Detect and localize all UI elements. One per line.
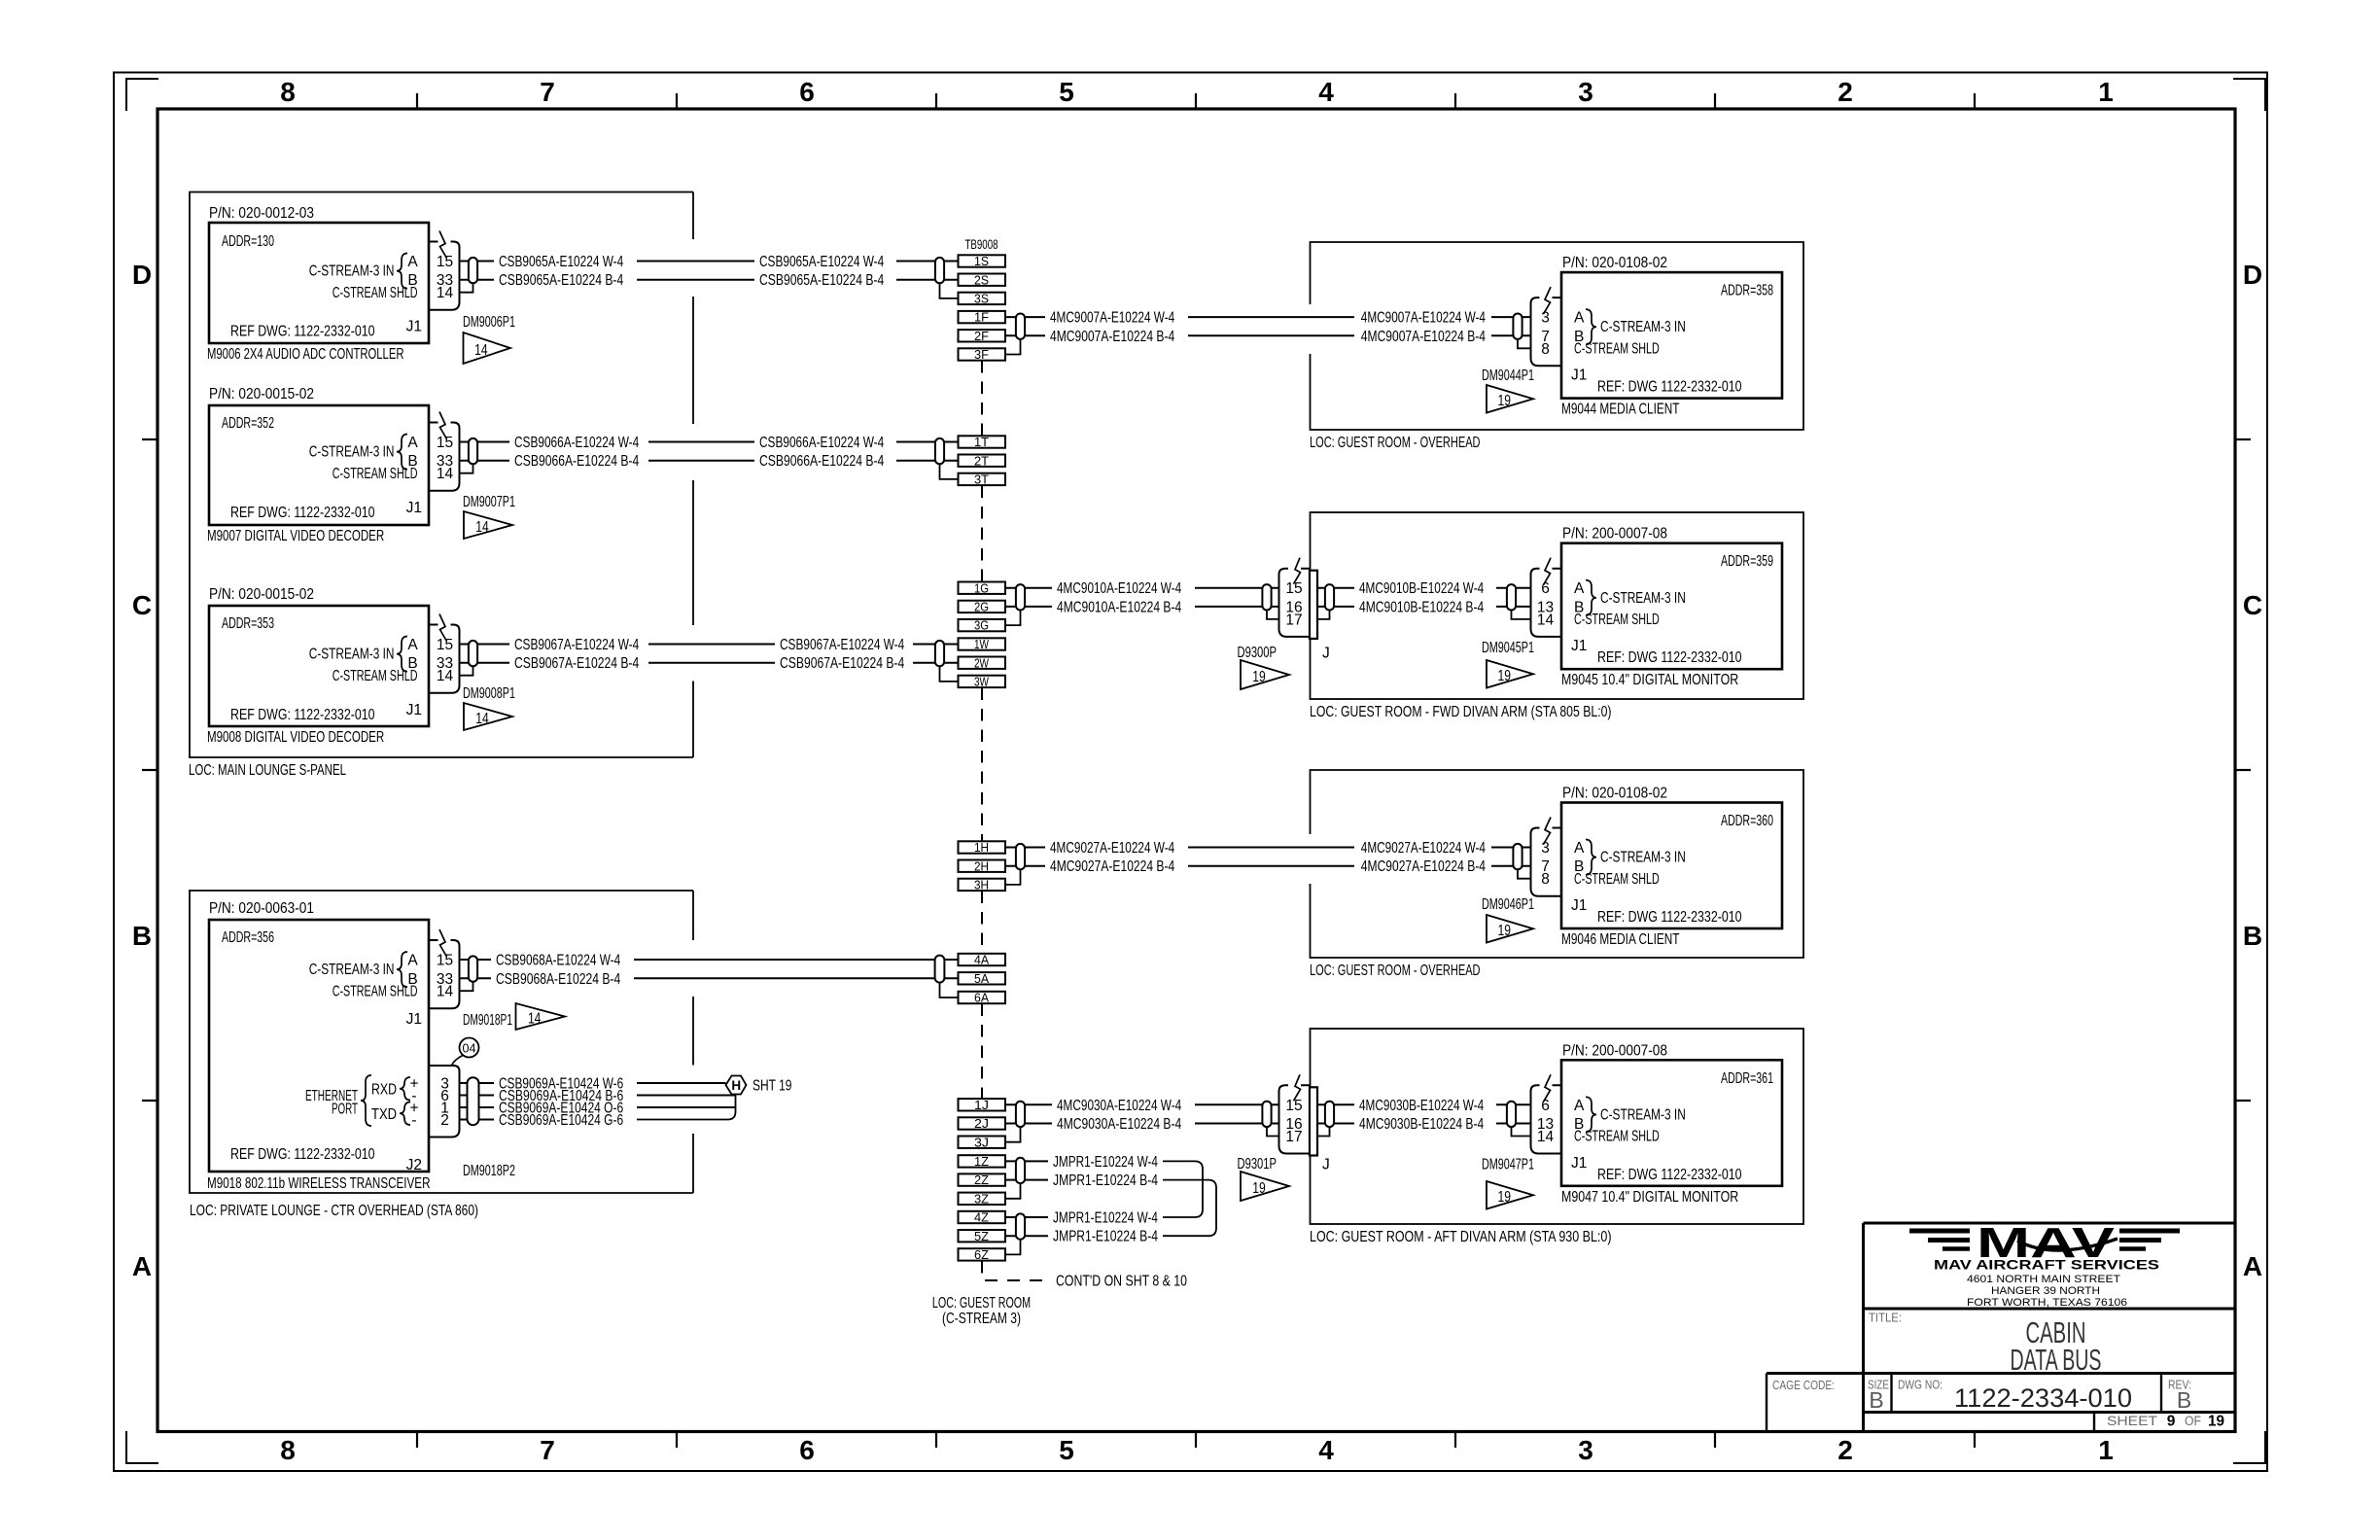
wire 4MC9030A-E10224 W-4 (1005, 1098, 1279, 1114)
terminal 3G (959, 618, 1006, 633)
svg-text:C-STREAM-3 IN: C-STREAM-3 IN (1600, 850, 1686, 866)
svg-text:REF: DWG 1122-2332-010: REF: DWG 1122-2332-010 (1597, 909, 1742, 926)
svg-text:3G: 3G (974, 618, 989, 633)
svg-text:SHEET: SHEET (2107, 1414, 2157, 1428)
svg-text:TITLE:: TITLE: (1869, 1311, 1902, 1325)
wire CSB9066A-E10224 W-4 (460, 435, 959, 451)
device M9008 DIGITAL VIDEO DECODER (207, 586, 429, 746)
svg-text:JMPR1-E10224 W-4: JMPR1-E10224 W-4 (1053, 1210, 1158, 1227)
svg-text:14: 14 (1537, 612, 1555, 628)
svg-text:17: 17 (1285, 1129, 1302, 1145)
title block outline (1767, 1223, 2235, 1432)
svg-text:2: 2 (440, 1112, 449, 1129)
device M9018 802.11b WIRELESS TRANSCEIVER (207, 900, 431, 1192)
svg-text:ADDR=353: ADDR=353 (222, 615, 274, 632)
flag triangle 19 (DM9047P1) (1487, 1181, 1533, 1209)
svg-text:B: B (2243, 921, 2262, 951)
svg-text:2: 2 (1837, 1435, 1853, 1465)
wire 4MC9010A-E10224 W-4 (1005, 580, 1279, 597)
group box LOC MAIN LOUNGE S-PANEL (190, 192, 693, 758)
svg-text:3: 3 (1578, 77, 1593, 107)
terminal 3S (959, 292, 1006, 306)
svg-text:4MC9010B-E10224 W-4: 4MC9010B-E10224 W-4 (1359, 580, 1484, 597)
shield drain TB 3S side (940, 283, 959, 298)
svg-text:CSB9066A-E10224 W-4: CSB9066A-E10224 W-4 (759, 435, 884, 451)
connector J1 of M9046 (1531, 818, 1562, 896)
svg-text:TXD: TXD (371, 1106, 397, 1123)
svg-text:JMPR1-E10224 B-4: JMPR1-E10224 B-4 (1053, 1172, 1158, 1189)
jumper wire JMPR1-E10224 W-4 (1Z to 4Z) (1005, 1154, 1203, 1227)
device M9046 M9046 MEDIA CLIENT (1561, 786, 1782, 949)
svg-text:CSB9067A-E10224 W-4: CSB9067A-E10224 W-4 (780, 637, 904, 653)
svg-text:A: A (407, 435, 418, 451)
shield oval TB S group (935, 258, 944, 283)
device M9006 2X4 AUDIO ADC CONTROLLER (207, 205, 429, 363)
terminal 1S (959, 254, 1006, 268)
svg-text:C-STREAM SHLD: C-STREAM SHLD (332, 984, 418, 1000)
svg-text:H: H (731, 1078, 741, 1093)
svg-text:REF DWG: 1122-2332-010: REF DWG: 1122-2332-010 (230, 505, 375, 521)
dashed bus line of terminal strip (982, 361, 1050, 1280)
wire CSB9069A-E10424 O-6 (460, 1101, 736, 1117)
svg-text:LOC: GUEST ROOM - OVERHEAD: LOC: GUEST ROOM - OVERHEAD (1310, 435, 1481, 451)
terminal 6A (959, 991, 1006, 1005)
shield drain TB 6A side (940, 982, 959, 997)
flag triangle 19 (DM9046P1) (1487, 915, 1533, 943)
svg-text:M9045 10.4" DIGITAL MONITOR: M9045 10.4" DIGITAL MONITOR (1561, 672, 1738, 688)
connector J1 of M9018 (429, 929, 460, 1008)
zone tick marks bottom (417, 1432, 1975, 1449)
svg-text:J1: J1 (406, 702, 422, 718)
svg-text:P/N: 020-0012-03: P/N: 020-0012-03 (209, 205, 314, 222)
svg-text:A: A (2243, 1251, 2262, 1281)
svg-text:1W: 1W (974, 637, 990, 651)
svg-text:M9008 DIGITAL VIDEO DECODER: M9008 DIGITAL VIDEO DECODER (207, 729, 384, 746)
terminal 1J (959, 1098, 1006, 1112)
zone letters right (2243, 260, 2262, 1281)
svg-text:P/N: 020-0015-02: P/N: 020-0015-02 (209, 586, 314, 603)
svg-text:C-STREAM-3 IN: C-STREAM-3 IN (309, 263, 395, 280)
svg-text:A: A (407, 637, 418, 653)
svg-text:1: 1 (2098, 1435, 2114, 1465)
shield oval M9045 (1507, 584, 1516, 610)
shield oval M9018 J2 ethernet (468, 1077, 479, 1125)
svg-text:C: C (2243, 590, 2262, 620)
svg-text:CONT'D ON SHT 8 & 10: CONT'D ON SHT 8 & 10 (1056, 1274, 1187, 1290)
shield oval TB 1Z/2Z (1016, 1158, 1025, 1183)
svg-text:4MC9007A-E10224 B-4: 4MC9007A-E10224 B-4 (1050, 329, 1174, 345)
svg-text:4MC9030A-E10224 B-4: 4MC9030A-E10224 B-4 (1057, 1116, 1181, 1133)
svg-text:4MC9010B-E10224 B-4: 4MC9010B-E10224 B-4 (1359, 599, 1484, 615)
svg-text:OF: OF (2185, 1414, 2201, 1428)
svg-text:LOC: MAIN LOUNGE S-PANEL: LOC: MAIN LOUNGE S-PANEL (189, 762, 346, 779)
group box LOC PRIVATE LOUNGE - CTR OVERHEAD (190, 891, 693, 1193)
svg-text:D: D (132, 260, 152, 290)
svg-text:3: 3 (1541, 840, 1550, 857)
svg-text:14: 14 (475, 711, 489, 727)
connector receptacle J of D9301P (1310, 1087, 1330, 1172)
svg-text:-: - (411, 1112, 416, 1129)
dwg no field (1898, 1378, 2132, 1414)
svg-text:4MC9007A-E10224 W-4: 4MC9007A-E10224 W-4 (1050, 310, 1174, 327)
svg-text:M9044 MEDIA CLIENT: M9044 MEDIA CLIENT (1561, 402, 1680, 418)
shield drain TB 3Z side (1005, 1183, 1021, 1199)
shield drain M9008 side (460, 666, 473, 675)
svg-text:M9007 DIGITAL VIDEO DECODER: M9007 DIGITAL VIDEO DECODER (207, 528, 384, 544)
sheet field SHEET 9 OF 19 (2107, 1414, 2224, 1430)
svg-text:4MC9007A-E10224 W-4: 4MC9007A-E10224 W-4 (1361, 310, 1486, 327)
svg-text:J1: J1 (1571, 897, 1587, 914)
svg-text:J1: J1 (406, 319, 422, 335)
svg-text:1F: 1F (974, 310, 989, 325)
svg-text:D9300P: D9300P (1238, 645, 1277, 661)
svg-text:5A: 5A (974, 971, 989, 986)
connector J1 of M9007 (429, 412, 460, 491)
svg-text:ADDR=360: ADDR=360 (1721, 813, 1773, 829)
shield drain M9007 side (460, 464, 473, 472)
svg-text:B: B (2177, 1387, 2191, 1413)
svg-text:CSB9069A-E10424 G-6: CSB9069A-E10424 G-6 (499, 1112, 623, 1129)
svg-text:4MC9030B-E10224 W-4: 4MC9030B-E10224 W-4 (1359, 1098, 1484, 1114)
flag triangle 19 (D9301P) (1241, 1172, 1289, 1201)
wire CSB9069A-E10424 B-6 (460, 1088, 736, 1104)
svg-text:MAV AIRCRAFT SERVICES: MAV AIRCRAFT SERVICES (1934, 1257, 2159, 1273)
svg-text:15: 15 (1285, 580, 1302, 597)
svg-text:DM9018P1: DM9018P1 (463, 1012, 512, 1029)
size field (1868, 1378, 1889, 1414)
svg-text:C-STREAM-3 IN: C-STREAM-3 IN (309, 444, 395, 461)
svg-text:2W: 2W (974, 655, 990, 670)
svg-text:M9018 802.11b WIRELESS TRANSCE: M9018 802.11b WIRELESS TRANSCEIVER (207, 1175, 431, 1192)
shield oval TB 4Z/5Z (1016, 1213, 1025, 1239)
svg-text:19: 19 (1252, 1180, 1266, 1197)
svg-text:LOC: GUEST ROOM: LOC: GUEST ROOM (932, 1295, 1031, 1312)
terminal 1F (959, 310, 1006, 325)
svg-text:LOC: GUEST ROOM - FWD DIVAN AR: LOC: GUEST ROOM - FWD DIVAN ARM (STA 805… (1310, 704, 1612, 720)
svg-text:PORT: PORT (332, 1102, 358, 1118)
shield oval M9044 (1513, 314, 1522, 339)
zone tick marks right (2235, 439, 2251, 1101)
terminal 3F (959, 347, 1006, 362)
shield oval M9046 (1513, 844, 1522, 869)
svg-text:04: 04 (463, 1041, 476, 1056)
MAV logo (1977, 1219, 2117, 1267)
terminal 2Z (959, 1172, 1006, 1187)
terminal 2S (959, 272, 1006, 287)
svg-text:C-STREAM-3 IN: C-STREAM-3 IN (1600, 319, 1686, 335)
terminal 2F (959, 329, 1006, 343)
svg-text:C-STREAM SHLD: C-STREAM SHLD (1574, 1129, 1660, 1145)
svg-text:DM9044P1: DM9044P1 (1482, 367, 1534, 384)
svg-text:M9006 2X4 AUDIO ADC CONTROLLER: M9006 2X4 AUDIO ADC CONTROLLER (207, 346, 404, 363)
svg-text:J1: J1 (1571, 638, 1587, 654)
callout circle 04 (452, 1038, 479, 1067)
svg-text:C-STREAM-3 IN: C-STREAM-3 IN (1600, 1106, 1686, 1123)
svg-text:6A: 6A (974, 991, 989, 1005)
wire CSB9066A-E10224 B-4 (460, 453, 959, 470)
flag triangle 14 (DM9006P1) (464, 332, 511, 364)
svg-text:19: 19 (1497, 393, 1511, 409)
svg-text:3S: 3S (974, 292, 989, 306)
svg-text:LOC: GUEST ROOM - AFT DIVAN AR: LOC: GUEST ROOM - AFT DIVAN ARM (STA 930… (1310, 1229, 1612, 1245)
shield drain D9300P receptacle side (1317, 611, 1330, 619)
terminal 4Z (959, 1210, 1006, 1225)
svg-text:CSB9067A-E10224 W-4: CSB9067A-E10224 W-4 (514, 637, 639, 653)
svg-text:DM9047P1: DM9047P1 (1482, 1157, 1534, 1173)
wire 4MC9030B-E10224 B-4 (1317, 1116, 1530, 1133)
svg-text:17: 17 (1285, 612, 1302, 628)
svg-text:DM9008P1: DM9008P1 (463, 685, 515, 702)
svg-text:4A: 4A (974, 953, 989, 967)
svg-text:A: A (132, 1251, 152, 1281)
svg-text:REF: DWG 1122-2332-010: REF: DWG 1122-2332-010 (1597, 1167, 1742, 1183)
svg-text:P/N: 020-0108-02: P/N: 020-0108-02 (1562, 786, 1667, 802)
svg-text:DWG NO:: DWG NO: (1898, 1378, 1942, 1392)
svg-text:C-STREAM SHLD: C-STREAM SHLD (332, 285, 418, 301)
svg-text:3F: 3F (974, 347, 989, 362)
svg-text:(C-STREAM 3): (C-STREAM 3) (942, 1311, 1021, 1327)
svg-text:ADDR=358: ADDR=358 (1721, 283, 1773, 299)
group box LOC GUEST ROOM FWD DIVAN (M9045) (1311, 512, 1804, 699)
svg-text:CSB9065A-E10224 B-4: CSB9065A-E10224 B-4 (759, 272, 884, 289)
shield drain TB 3G side (1005, 611, 1021, 626)
svg-text:ADDR=356: ADDR=356 (222, 929, 274, 946)
wire CSB9068A-E10224 W-4 (460, 953, 959, 969)
svg-text:REF DWG: 1122-2332-010: REF DWG: 1122-2332-010 (230, 324, 375, 340)
wire CSB9067A-E10224 W-4 (460, 637, 959, 653)
svg-text:1122-2334-010: 1122-2334-010 (1954, 1383, 2132, 1413)
shield drain D9301P receptacle side (1317, 1127, 1330, 1136)
shield oval TB H group (1016, 844, 1025, 869)
svg-text:C-STREAM SHLD: C-STREAM SHLD (332, 466, 418, 482)
svg-text:4MC9030A-E10224 W-4: 4MC9030A-E10224 W-4 (1057, 1098, 1181, 1114)
svg-text:7: 7 (540, 1435, 555, 1465)
svg-text:19: 19 (1252, 669, 1266, 685)
svg-text:15: 15 (437, 254, 453, 270)
svg-text:2: 2 (1837, 77, 1853, 107)
flag triangle 19 (DM9044P1) (1487, 385, 1533, 413)
zone letters left (132, 260, 152, 1281)
svg-text:DM9006P1: DM9006P1 (463, 314, 515, 331)
device M9007 DIGITAL VIDEO DECODER (207, 386, 429, 544)
svg-text:1G: 1G (974, 580, 989, 595)
svg-text:14: 14 (437, 466, 454, 482)
shield drain TB 3F side (1005, 339, 1021, 355)
svg-text:CSB9066A-E10224 W-4: CSB9066A-E10224 W-4 (514, 435, 639, 451)
svg-text:8: 8 (1541, 871, 1550, 888)
shield oval M9008 (469, 641, 477, 666)
svg-text:J2: J2 (406, 1157, 422, 1173)
terminal 3T (959, 472, 1006, 487)
connector plug D9301P (1279, 1074, 1311, 1153)
terminal 3Z (959, 1191, 1006, 1206)
svg-text:15: 15 (437, 637, 453, 653)
wire CSB9065A-E10224 B-4 (460, 272, 959, 289)
svg-text:3H: 3H (974, 878, 989, 892)
rev field (2168, 1378, 2191, 1414)
terminal 5A (959, 971, 1006, 986)
terminal 5Z (959, 1229, 1006, 1243)
svg-text:14: 14 (437, 984, 454, 1000)
svg-text:14: 14 (437, 285, 454, 301)
shield drain TB 3W side (940, 666, 959, 682)
svg-text:CSB9066A-E10224 B-4: CSB9066A-E10224 B-4 (514, 453, 639, 470)
svg-text:14: 14 (475, 519, 489, 536)
device M9044 M9044 MEDIA CLIENT (1561, 255, 1782, 418)
svg-text:JMPR1-E10224 W-4: JMPR1-E10224 W-4 (1053, 1154, 1158, 1171)
svg-text:P/N: 020-0108-02: P/N: 020-0108-02 (1562, 255, 1667, 271)
terminal 2H (959, 858, 1006, 873)
shield oval TB A group (935, 956, 945, 983)
svg-text:9: 9 (2167, 1414, 2176, 1430)
svg-text:B: B (132, 921, 152, 951)
svg-text:CSB9067A-E10224 B-4: CSB9067A-E10224 B-4 (780, 655, 904, 672)
svg-text:A: A (1574, 840, 1585, 857)
terminal 6Z (959, 1247, 1006, 1262)
connector plug D9300P (1279, 558, 1311, 637)
svg-text:4MC9027A-E10224 B-4: 4MC9027A-E10224 B-4 (1361, 858, 1486, 875)
svg-text:DATA BUS: DATA BUS (2011, 1343, 2102, 1377)
svg-text:CSB9067A-E10224 B-4: CSB9067A-E10224 B-4 (514, 655, 639, 672)
svg-text:LOC: PRIVATE LOUNGE - CTR OVER: LOC: PRIVATE LOUNGE - CTR OVERHEAD (STA … (190, 1203, 478, 1219)
svg-text:J: J (1322, 1157, 1330, 1173)
shield drain M9045 side (1512, 611, 1530, 619)
off-sheet hexagon flag H (726, 1076, 747, 1095)
svg-text:5: 5 (1059, 1435, 1074, 1465)
terminal 1H (959, 840, 1006, 855)
shield drain M9018 J1 side (460, 982, 473, 991)
svg-text:CSB9065A-E10224 W-4: CSB9065A-E10224 W-4 (759, 254, 884, 270)
group box LOC GUEST ROOM - OVERHEAD (M9046) (1311, 770, 1804, 958)
svg-text:P/N: 020-0015-02: P/N: 020-0015-02 (209, 386, 314, 402)
terminal 2T (959, 453, 1006, 468)
zone numbers bottom (280, 1435, 2114, 1465)
svg-text:LOC: GUEST ROOM - OVERHEAD: LOC: GUEST ROOM - OVERHEAD (1310, 962, 1481, 979)
terminal 1G (959, 580, 1006, 595)
shield drain TB 3J side (1005, 1127, 1021, 1142)
svg-text:P/N: 200-0007-08: P/N: 200-0007-08 (1562, 1042, 1667, 1059)
flag triangle 14 (DM9008P1) (464, 703, 512, 730)
svg-text:A: A (407, 254, 418, 270)
flag triangle 14 (DM9018P1) (516, 1003, 566, 1030)
connector J1 of M9008 (429, 614, 460, 693)
wire 4MC9030B-E10224 W-4 (1317, 1098, 1530, 1114)
svg-text:19: 19 (1497, 1189, 1511, 1206)
svg-text:ADDR=361: ADDR=361 (1721, 1070, 1773, 1087)
logo wing lines left (1909, 1231, 1970, 1249)
svg-text:REF DWG: 1122-2332-010: REF DWG: 1122-2332-010 (230, 1146, 375, 1163)
shield drain M9006 side (460, 283, 473, 292)
terminal 2G (959, 600, 1006, 614)
connector J1 of M9045 (1531, 558, 1562, 637)
svg-text:2H: 2H (974, 858, 989, 873)
svg-text:2G: 2G (974, 600, 989, 614)
svg-text:14: 14 (528, 1011, 542, 1028)
shield oval D9301P right (1325, 1102, 1334, 1127)
shield drain TB 3H side (1005, 869, 1021, 885)
terminal 2J (959, 1116, 1006, 1131)
inner drawing frame (157, 109, 2235, 1432)
shield drain D9301P plug side (1267, 1127, 1279, 1136)
svg-text:FORT WORTH, TEXAS 76106: FORT WORTH, TEXAS 76106 (1967, 1297, 2127, 1309)
svg-text:TB9008: TB9008 (965, 237, 998, 252)
svg-text:DM9018P2: DM9018P2 (463, 1163, 515, 1179)
svg-text:19: 19 (1497, 923, 1511, 939)
svg-text:CAGE CODE:: CAGE CODE: (1772, 1378, 1835, 1392)
shield oval TB G group (1016, 584, 1025, 610)
svg-text:14: 14 (437, 668, 454, 684)
shield oval M9007 (469, 438, 477, 464)
svg-text:6: 6 (1541, 1098, 1550, 1114)
svg-text:1S: 1S (974, 254, 989, 268)
svg-text:C: C (132, 590, 152, 620)
flag triangle 19 (DM9045P1) (1487, 660, 1533, 688)
svg-text:1T: 1T (974, 435, 989, 449)
wire 4MC9027A-E10224 B-4 (1005, 858, 1530, 875)
svg-text:4601 NORTH MAIN STREET: 4601 NORTH MAIN STREET (1967, 1274, 2120, 1285)
wire 4MC9007A-E10224 W-4 (1005, 310, 1530, 327)
shield oval TB W group (935, 641, 944, 666)
svg-text:3W: 3W (974, 675, 990, 689)
shield drain D9300P plug side (1267, 611, 1279, 619)
svg-text:D: D (2243, 260, 2262, 290)
svg-text:3T: 3T (974, 472, 989, 487)
svg-text:15: 15 (1285, 1098, 1302, 1114)
svg-text:A: A (1574, 580, 1585, 597)
svg-text:2J: 2J (974, 1116, 989, 1131)
svg-text:ADDR=130: ADDR=130 (222, 233, 274, 250)
svg-text:3: 3 (1541, 310, 1550, 327)
wire CSB9069A-E10424 G-6 (460, 1095, 736, 1130)
svg-text:8: 8 (280, 77, 296, 107)
svg-text:4: 4 (1318, 1435, 1334, 1465)
svg-text:15: 15 (437, 953, 453, 969)
connector J1 of M9006 (429, 231, 460, 310)
svg-text:4MC9027A-E10224 W-4: 4MC9027A-E10224 W-4 (1361, 840, 1486, 857)
svg-text:4: 4 (1318, 77, 1334, 107)
svg-text:REF: DWG 1122-2332-010: REF: DWG 1122-2332-010 (1597, 649, 1742, 666)
wire CSB9069A-E10424 W-6 (460, 1076, 726, 1093)
svg-text:2Z: 2Z (974, 1172, 989, 1187)
svg-text:4Z: 4Z (974, 1210, 989, 1225)
svg-text:19: 19 (1497, 668, 1511, 684)
svg-text:C-STREAM-3 IN: C-STREAM-3 IN (309, 962, 395, 978)
svg-text:P/N: 020-0063-01: P/N: 020-0063-01 (209, 900, 314, 917)
group box LOC GUEST ROOM - OVERHEAD (M9044) (1311, 242, 1804, 430)
shield oval D9300P left (1262, 584, 1271, 610)
connector receptacle J of D9300P (1310, 571, 1330, 662)
svg-text:4MC9010A-E10224 B-4: 4MC9010A-E10224 B-4 (1057, 599, 1181, 615)
svg-text:DM9045P1: DM9045P1 (1482, 640, 1534, 656)
svg-text:2F: 2F (974, 329, 989, 343)
shield drain TB 6Z side (1005, 1240, 1021, 1255)
connector J1 of M9047 (1531, 1074, 1562, 1153)
company address (1967, 1274, 2127, 1309)
terminal 1W (959, 637, 1006, 651)
svg-text:CSB9065A-E10224 B-4: CSB9065A-E10224 B-4 (499, 272, 623, 289)
shield oval TB T group (935, 438, 944, 464)
svg-text:M9047 10.4" DIGITAL MONITOR: M9047 10.4" DIGITAL MONITOR (1561, 1189, 1738, 1206)
wire 4MC9030A-E10224 B-4 (1005, 1116, 1279, 1133)
svg-text:A: A (1574, 310, 1585, 327)
wire 4MC9010A-E10224 B-4 (1005, 599, 1279, 615)
shield oval TB F group (1016, 314, 1025, 339)
svg-text:19: 19 (2208, 1414, 2224, 1430)
svg-text:3: 3 (1578, 1435, 1593, 1465)
svg-text:1J: 1J (974, 1098, 989, 1112)
svg-text:4MC9030B-E10224 B-4: 4MC9030B-E10224 B-4 (1359, 1116, 1484, 1133)
logo wing lines right (2119, 1231, 2180, 1249)
